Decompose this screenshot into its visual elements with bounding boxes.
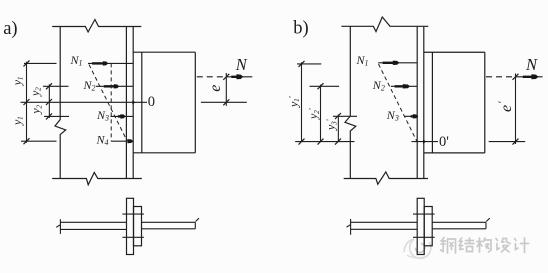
char she <box>496 239 510 253</box>
tick axis inner (a) <box>46 99 52 105</box>
applied force arrow (a) <box>231 76 237 78</box>
svg-text:b): b) <box>293 19 308 39</box>
plan view column flange plate (b) <box>417 198 424 254</box>
char gou <box>477 238 491 252</box>
tick e top (a) <box>223 74 229 80</box>
bolt row N2 line (b) <box>310 85 418 87</box>
plan view column web (b) <box>347 219 418 235</box>
bolt row N2 line (a) <box>43 85 133 87</box>
applied force dashed line (a) <box>197 76 229 78</box>
svg-text:e: e <box>207 85 224 92</box>
dimension chain inner (a) <box>48 84 50 118</box>
tick axis inner (b) <box>335 139 341 145</box>
axis arrow (b) <box>423 140 426 144</box>
svg-text:N: N <box>525 55 538 74</box>
column right flange line 1 (a) <box>125 27 127 179</box>
column right flange line 2 (b) <box>423 26 425 178</box>
force arrow N1 (a) <box>92 62 104 64</box>
dimension chain inner (b) <box>337 114 339 141</box>
end plate right edge (b) <box>431 52 433 153</box>
column left flange with break (b) <box>345 26 356 178</box>
force arrow N3 (a) <box>118 115 122 117</box>
plan view bolt line bottom (a) <box>122 236 143 238</box>
plan view bolt line bottom (b) <box>413 236 435 238</box>
vertical dashed bolt line (a) <box>110 63 112 141</box>
axis 0' line (b) <box>295 141 438 143</box>
tick e' bottom (b) <box>513 139 519 145</box>
column right flange line 2 (a) <box>132 27 134 179</box>
tick e' top (b) <box>513 74 519 80</box>
column left flange with break (a) <box>55 27 66 179</box>
force arrow N2 (b) <box>395 85 404 87</box>
tick N4 (a) <box>24 138 30 144</box>
force arrow N2 (a) <box>104 85 115 87</box>
plan view column web (a) <box>56 219 126 234</box>
applied force line (a) <box>229 76 252 78</box>
plan view column flange plate (a) <box>127 198 134 254</box>
bolt row N1 line (b) <box>297 63 417 64</box>
char ji <box>515 238 529 253</box>
diagonal dashed rotation line (a) <box>89 65 127 142</box>
svg-text:N: N <box>235 55 248 74</box>
axis reference line right (b) <box>489 141 526 143</box>
force arrow N4 (a) <box>127 139 133 143</box>
bolt row N3 line (b) <box>333 115 417 117</box>
bolt row N3 line (a) <box>44 115 133 117</box>
applied force line (b) <box>516 76 543 78</box>
bracket outline (b) <box>424 52 485 153</box>
plan view end plate (b) <box>424 207 432 246</box>
tick N1 (b) <box>299 61 305 67</box>
end plate right edge (a) <box>141 52 143 153</box>
applied force arrow (b) <box>523 76 532 78</box>
tick N2 (b) <box>318 83 324 89</box>
plan view bracket web (b) <box>432 218 490 229</box>
char jie <box>459 238 474 252</box>
tick axis outer (a) <box>24 99 30 105</box>
column bottom edge (b) <box>344 172 428 184</box>
axis 0 line (a) <box>21 101 148 103</box>
tick axis middle (b) <box>318 139 324 145</box>
column top edge (a) <box>52 20 141 33</box>
dimension chain middle (b) <box>320 85 322 142</box>
watermark text 钢结构设计 <box>441 238 529 254</box>
plan view bolt line top (b) <box>413 213 435 215</box>
bracket outline (a) <box>133 52 195 153</box>
tick N2 (a) <box>46 83 52 89</box>
axis arrow (a) <box>132 100 135 104</box>
tick axis outer (b) <box>299 139 305 145</box>
dimension chain outer (a) <box>26 62 28 143</box>
bolt row N1 line (a) <box>24 62 133 64</box>
tick e bottom (a) <box>223 99 229 105</box>
eccentricity dimension line (b) <box>515 74 517 145</box>
column right flange line 1 (b) <box>416 26 418 178</box>
tick N1 (a) <box>24 60 30 66</box>
axis reference line right (a) <box>201 101 247 103</box>
column bottom edge (a) <box>52 172 142 184</box>
force arrow N3 (b) <box>411 115 414 117</box>
dimension chain outer (b) <box>301 62 303 142</box>
bolt row N4 line (a) <box>21 140 126 142</box>
plan view end plate (a) <box>134 207 142 246</box>
tick N3 (b) <box>335 113 341 119</box>
eccentricity dimension line (a) <box>225 73 227 106</box>
svg-text:a): a) <box>3 19 17 39</box>
diagonal dashed rotation line (b) <box>379 64 418 142</box>
force arrow N1 (b) <box>383 62 394 64</box>
plan view bolt line top (a) <box>122 213 143 215</box>
svg-text:0': 0' <box>439 134 449 150</box>
column top edge (b) <box>341 17 428 32</box>
tick N3 (a) <box>46 113 52 119</box>
plan view bracket web (a) <box>142 218 200 229</box>
watermark logo <box>404 240 431 259</box>
svg-text:0: 0 <box>148 94 155 110</box>
char gang <box>441 238 456 254</box>
applied force dashed line (b) <box>486 76 514 78</box>
